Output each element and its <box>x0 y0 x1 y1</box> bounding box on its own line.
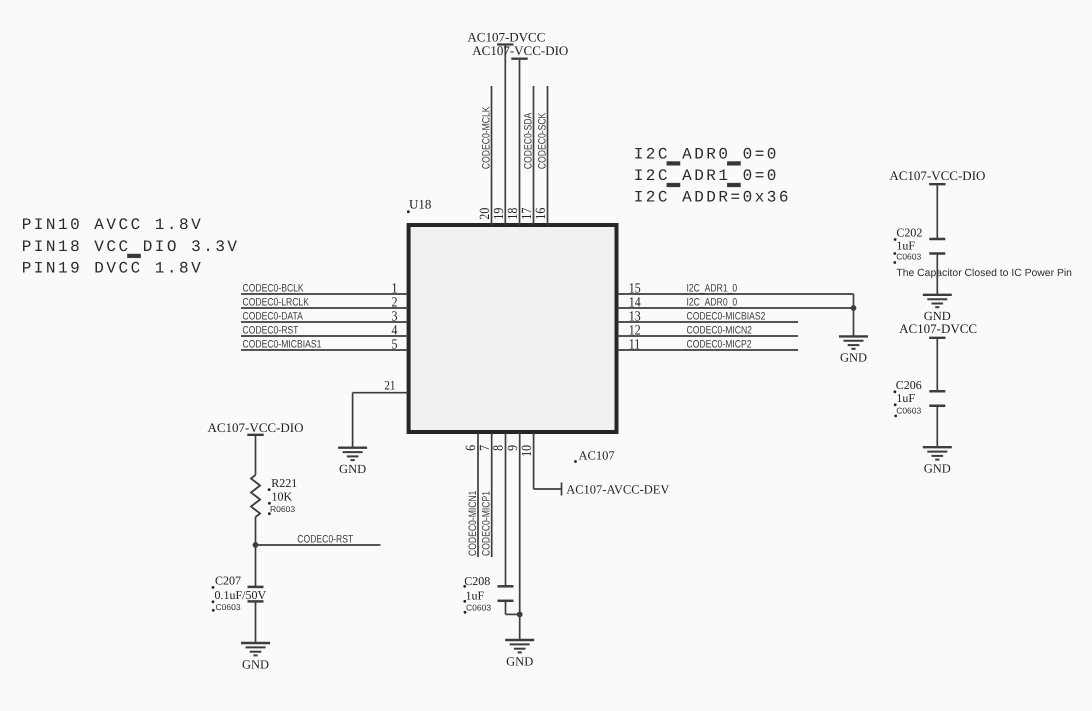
svg-text:CODEC0-MICP1: CODEC0-MICP1 <box>481 491 493 556</box>
svg-text:PIN18 VCC DIO 3.3V: PIN18 VCC DIO 3.3V <box>22 238 240 256</box>
svg-text:GND: GND <box>506 654 533 668</box>
svg-text:17: 17 <box>520 208 535 220</box>
svg-text:CODEC0-MCLK: CODEC0-MCLK <box>480 106 492 169</box>
svg-text:PIN10 AVCC 1.8V: PIN10 AVCC 1.8V <box>22 216 204 234</box>
svg-text:CODEC0-DATA: CODEC0-DATA <box>243 310 304 322</box>
svg-text:CODEC0-SDA: CODEC0-SDA <box>522 112 534 169</box>
svg-text:GND: GND <box>924 462 951 476</box>
svg-text:10: 10 <box>520 445 535 457</box>
svg-text:C0603: C0603 <box>896 406 921 416</box>
svg-text:15: 15 <box>629 281 641 296</box>
svg-text:CODEC0-RST: CODEC0-RST <box>297 533 353 545</box>
svg-text:The Capacitor Closed to IC Pow: The Capacitor Closed to IC Power Pin <box>896 268 1072 279</box>
svg-text:14: 14 <box>629 295 641 310</box>
svg-text:C0603: C0603 <box>466 602 491 612</box>
svg-text:C207: C207 <box>215 573 241 587</box>
svg-text:GND: GND <box>242 657 269 671</box>
svg-text:AC107-AVCC-DEV: AC107-AVCC-DEV <box>566 483 669 497</box>
svg-text:AC107-VCC-DIO: AC107-VCC-DIO <box>207 420 303 435</box>
svg-text:CODEC0-MICP2: CODEC0-MICP2 <box>687 338 752 350</box>
svg-text:1uF: 1uF <box>466 588 485 602</box>
svg-text:U18: U18 <box>409 196 431 211</box>
svg-text:1: 1 <box>392 281 398 296</box>
svg-text:1uF: 1uF <box>896 239 915 253</box>
svg-text:7: 7 <box>478 445 493 451</box>
svg-text:I2C ADR1 0=0: I2C ADR1 0=0 <box>634 167 779 185</box>
svg-text:C208: C208 <box>464 574 490 588</box>
svg-text:AC107: AC107 <box>579 449 615 463</box>
svg-text:C206: C206 <box>896 378 922 392</box>
svg-text:10K: 10K <box>272 489 293 503</box>
svg-text:18: 18 <box>506 208 521 220</box>
svg-text:5: 5 <box>392 337 398 352</box>
svg-text:4: 4 <box>392 323 398 338</box>
svg-text:I2C ADDR=0x36: I2C ADDR=0x36 <box>634 188 791 206</box>
svg-text:21: 21 <box>384 378 395 393</box>
svg-text:CODEC0-SCK: CODEC0-SCK <box>536 112 548 169</box>
svg-text:CODEC0-BCLK: CODEC0-BCLK <box>243 282 305 294</box>
svg-text:0.1uF/50V: 0.1uF/50V <box>215 588 267 602</box>
svg-text:9: 9 <box>506 445 521 451</box>
svg-text:GND: GND <box>339 462 366 476</box>
svg-text:GND: GND <box>840 351 867 365</box>
svg-text:19: 19 <box>492 208 507 220</box>
svg-text:11: 11 <box>629 337 640 352</box>
svg-text:R0603: R0603 <box>270 504 295 514</box>
svg-text:R221: R221 <box>271 476 297 490</box>
svg-text:16: 16 <box>534 208 549 220</box>
svg-text:3: 3 <box>392 309 398 324</box>
svg-text:AC107-VCC-DIO: AC107-VCC-DIO <box>472 43 568 58</box>
svg-text:CODEC0-MICN1: CODEC0-MICN1 <box>467 491 479 556</box>
svg-text:I2C_ADR1_0: I2C_ADR1_0 <box>687 282 738 294</box>
svg-text:1uF: 1uF <box>896 391 915 405</box>
svg-text:CODEC0-MICN2: CODEC0-MICN2 <box>687 324 752 336</box>
svg-text:CODEC0-LRCLK: CODEC0-LRCLK <box>243 296 310 308</box>
svg-text:PIN19 DVCC 1.8V: PIN19 DVCC 1.8V <box>22 259 204 277</box>
svg-text:C0603: C0603 <box>896 252 921 262</box>
svg-text:2: 2 <box>392 295 398 310</box>
svg-text:AC107-DVCC: AC107-DVCC <box>899 321 977 336</box>
svg-text:CODEC0-MICBIAS2: CODEC0-MICBIAS2 <box>687 310 766 322</box>
svg-text:GND: GND <box>924 309 951 323</box>
svg-text:20: 20 <box>478 208 493 220</box>
svg-text:C202: C202 <box>896 225 922 239</box>
svg-text:CODEC0-MICBIAS1: CODEC0-MICBIAS1 <box>243 338 322 350</box>
svg-text:CODEC0-RST: CODEC0-RST <box>243 324 299 336</box>
svg-text:C0603: C0603 <box>216 602 241 612</box>
svg-text:I2C ADR0 0=0: I2C ADR0 0=0 <box>634 145 779 163</box>
svg-text:AC107-VCC-DIO: AC107-VCC-DIO <box>889 168 985 183</box>
svg-text:I2C_ADR0_0: I2C_ADR0_0 <box>687 296 738 308</box>
svg-text:13: 13 <box>629 309 641 324</box>
svg-text:8: 8 <box>492 445 507 451</box>
svg-text:12: 12 <box>629 323 641 338</box>
